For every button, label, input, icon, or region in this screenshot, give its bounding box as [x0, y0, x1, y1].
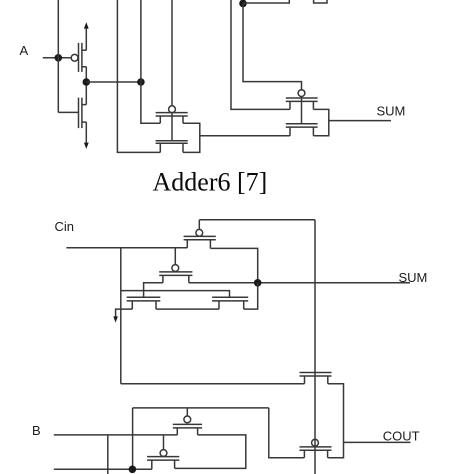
svg-text:Cin: Cin	[55, 219, 75, 234]
transistor P2 PMOS gate bar	[173, 423, 202, 425]
wire A input horizontal	[43, 57, 71, 59]
wire TG2 select top link	[243, 0, 289, 3]
wire second input line bottom	[54, 468, 152, 470]
wire TG2 right bracket	[313, 109, 328, 135]
transistor M6 NMOS channel	[286, 127, 318, 136]
svg-text:SUM: SUM	[377, 103, 406, 118]
TG1 select bubble	[169, 106, 176, 113]
transistor M9 NMOS channel	[300, 376, 332, 384]
junction bottom dot	[129, 466, 137, 474]
wire stub at top edge	[314, 0, 327, 3]
transistor P1 PMOS gate bar	[184, 235, 216, 237]
wire B horizontal	[54, 434, 178, 436]
wire SUM output top	[329, 120, 391, 122]
junction TG2 select dot	[239, 0, 247, 7]
wire input to TG2 top	[231, 0, 290, 109]
wire select long vertical	[314, 220, 316, 474]
wire P2 gate riser	[186, 408, 188, 416]
TG2 select bubble	[298, 90, 305, 97]
transistor M1 PMOS bubble	[71, 54, 78, 61]
wire A rail right down to P4	[269, 408, 305, 458]
wire A vertical to top edge and down	[57, 0, 59, 112]
transistor M2 NMOS channel	[82, 98, 86, 129]
wire Cin long vertical	[120, 248, 122, 384]
wire Abar horizontal	[86, 81, 141, 83]
ground VSS arrow	[85, 122, 87, 144]
transistor P3 PMOS bubble	[160, 450, 167, 457]
wire select top rail	[199, 219, 315, 221]
wire SUM line bottom	[189, 282, 410, 284]
wire Abar vertical to TG1 input	[141, 0, 160, 123]
wire Cin rail to NMOS M9	[121, 383, 305, 385]
transistor P2 PMOS channel	[173, 428, 202, 435]
wire A to NMOS M2 gate	[58, 111, 78, 113]
transistor M2 NMOS gate bar	[78, 98, 80, 129]
transistor P4 PMOS channel	[300, 450, 332, 458]
svg-text:B: B	[32, 423, 41, 438]
transistor P1 PMOS channel	[184, 240, 216, 249]
transistor M7 PMOS bubble	[172, 265, 179, 272]
wire A rail horizontal	[133, 407, 269, 409]
transistor M8 NMOS gate bar	[212, 296, 248, 298]
transistor M5 PMOS gate bar	[286, 97, 318, 99]
wire Cin horizontal	[66, 247, 187, 249]
wire Cin to M7 bubble	[174, 248, 176, 265]
transistor M6 NMOS gate bar	[286, 123, 318, 125]
transistor M8a NMOS gate bar	[127, 296, 161, 298]
wire TG1 right bracket	[183, 123, 200, 152]
wire B to P3 bubble	[163, 435, 165, 450]
junction Abar dot	[83, 78, 91, 86]
wire TG2 select vertical	[243, 3, 302, 89]
ground arrow bottom circuit	[116, 309, 133, 318]
wire M8a to M8 link	[156, 308, 219, 310]
transistor M9 NMOS gate bar	[300, 372, 332, 374]
wire second input to TG1	[117, 0, 160, 152]
wire M9 right bracket	[328, 384, 344, 458]
power VDD arrow	[85, 28, 87, 51]
transistor P2 PMOS bubble	[184, 416, 191, 423]
wire TG1 select through	[171, 113, 173, 141]
transistor M8a NMOS channel	[127, 301, 161, 309]
wire M7 source to M8a gate	[144, 283, 163, 298]
wire COUT output	[344, 441, 411, 443]
transistor M7 PMOS gate bar	[159, 271, 192, 273]
transistor P3 PMOS channel	[147, 460, 179, 469]
transistor M3 PMOS channel	[156, 116, 188, 123]
transistor P4 PMOS bubble	[312, 439, 319, 446]
transistor M1 PMOS channel	[82, 43, 86, 72]
wire A rail left vertical to dot	[132, 408, 134, 469]
wire TG1 select vertical	[171, 0, 173, 106]
transistor M4 NMOS gate bar	[156, 140, 188, 142]
svg-text:SUM: SUM	[399, 270, 428, 285]
wire P2 drain to P3 drain	[175, 435, 246, 469]
wire P1 gate riser	[198, 220, 200, 230]
transistor M5 PMOS channel	[286, 101, 318, 109]
wire TG2 select through	[301, 97, 303, 124]
svg-text:Adder6 [7]: Adder6 [7]	[153, 168, 268, 197]
transistor M3 PMOS gate bar	[156, 112, 188, 114]
wire P1 drain to SUM junction	[210, 248, 257, 282]
svg-text:A: A	[20, 43, 29, 58]
transistor M8 NMOS channel	[212, 301, 248, 309]
transistor P4 PMOS gate bar	[300, 446, 332, 448]
svg-text:COUT: COUT	[383, 429, 420, 444]
wire M1 drain down	[85, 67, 87, 82]
wire M8 drain to SUM junction	[244, 283, 258, 309]
junction SUM dot	[254, 279, 262, 287]
wire M2 drain up	[85, 82, 87, 105]
transistor M1 PMOS gate bar	[78, 43, 80, 72]
wire branch to M8 gate	[121, 291, 230, 298]
transistor P1 PMOS bubble	[196, 229, 203, 236]
wire TG1 output to TG2	[200, 135, 290, 137]
wire B branch down left	[107, 435, 109, 474]
transistor M4 NMOS channel	[156, 143, 188, 152]
transistor P3 PMOS gate bar	[147, 456, 179, 458]
junction Abar branch dot	[137, 78, 145, 86]
junction A dot	[55, 54, 63, 62]
transistor M7 PMOS channel	[159, 275, 192, 282]
